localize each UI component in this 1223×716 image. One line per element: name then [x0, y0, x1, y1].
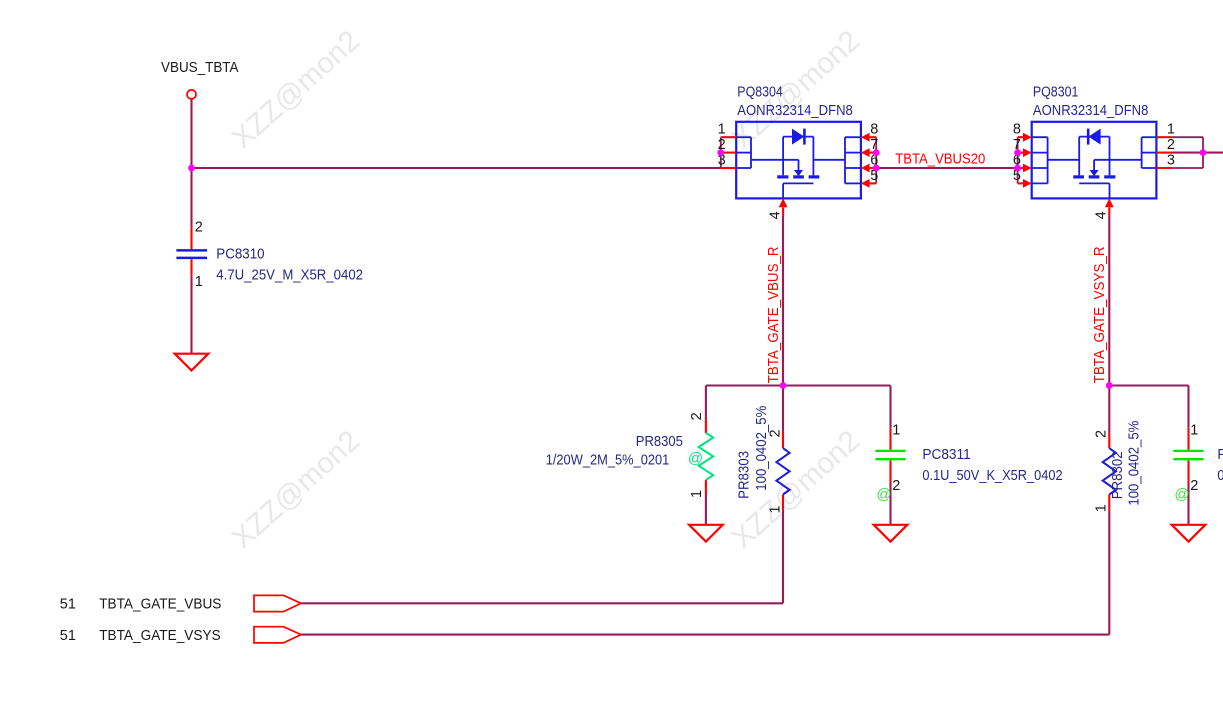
svg-text:VBUS_TBTA: VBUS_TBTA: [161, 60, 239, 76]
wire net TBTA_VBUS20 between PQ8304 and PQ8301: [876, 167, 1017, 169]
svg-text:TBTA_VBUS20: TBTA_VBUS20: [895, 151, 985, 167]
wire TBTA_GATE_VBUS port wire: [301, 602, 783, 604]
capacitor PC8310 pin stubs: [190, 228, 192, 249]
svg-text:PC8306: PC8306: [1217, 447, 1223, 463]
svg-text:51: 51: [60, 596, 76, 612]
svg-text:100_0402_5%: 100_0402_5%: [754, 406, 770, 491]
wire main VBUS_TBTA horizontal bus: [192, 167, 721, 169]
port TBTA_GATE_VBUS: [254, 595, 301, 611]
wire TBTA_GATE_VSYS port wire: [301, 634, 1109, 636]
svg-text:PQ8301: PQ8301: [1033, 85, 1079, 101]
svg-text:3: 3: [1167, 152, 1175, 168]
svg-text:0.1U_50V_K_X5R_0402: 0.1U_50V_K_X5R_0402: [1217, 468, 1223, 484]
svg-text:2: 2: [768, 429, 784, 437]
svg-text:1: 1: [1190, 422, 1198, 438]
svg-text:8: 8: [870, 122, 878, 138]
svg-text:51: 51: [60, 628, 76, 644]
svg-text:1: 1: [718, 122, 726, 138]
wire PQ8304 right pin tie vertical: [875, 137, 877, 183]
resistor PR8303 pin stubs: [782, 432, 784, 448]
svg-text:2: 2: [1093, 430, 1109, 438]
PQ8304 right pins 8,7,6,5 arrows and stubs: [861, 133, 870, 142]
PQ8304 MOSFET channel bars: [777, 175, 788, 178]
resistor PR8302 pin stubs: [1108, 433, 1110, 448]
svg-text:TBTA_GATE_VSYS: TBTA_GATE_VSYS: [99, 628, 221, 644]
svg-text:PC8311: PC8311: [922, 447, 970, 463]
PQ8304 body arrow: [798, 160, 800, 171]
wire PQ8304 left pin tie vertical: [720, 137, 722, 168]
ground for PC8311: [874, 525, 908, 542]
svg-text:4: 4: [1094, 211, 1110, 219]
svg-text:1/20W_2M_5%_0201: 1/20W_2M_5%_0201: [546, 453, 670, 469]
wire rail to PC8311: [889, 386, 891, 428]
wire TBTA_GATE_VBUS_R vertical from PQ8304 pin 4: [782, 215, 784, 385]
ground for PR8305: [689, 525, 723, 542]
node VBUS_TBTA terminal stem wire: [190, 99, 192, 228]
svg-text:TBTA_GATE_VBUS_R: TBTA_GATE_VBUS_R: [766, 246, 782, 383]
svg-text:PR8302: PR8302: [1110, 451, 1126, 499]
transistor PQ8301 AONR32314_DFN8 package body: [1032, 122, 1157, 199]
node junction dots: [188, 165, 195, 172]
svg-text:4: 4: [768, 211, 784, 219]
svg-text:1: 1: [1093, 504, 1109, 512]
svg-text:4.7U_25V_M_X5R_0402: 4.7U_25V_M_X5R_0402: [216, 268, 363, 284]
wire PC8311 to ground: [889, 484, 891, 525]
PQ8304 drain pin box (pins 5-8): [845, 136, 861, 138]
PQ8301 right pins 1,2,3 stubs: [1156, 136, 1171, 138]
wire junction to PR8302: [1108, 386, 1110, 433]
svg-text:XZZ@mon2: XZZ@mon2: [226, 424, 367, 555]
svg-text:1: 1: [768, 505, 784, 513]
svg-text:2: 2: [1190, 478, 1198, 494]
svg-text:8: 8: [1013, 122, 1021, 138]
svg-text:PR8305: PR8305: [636, 434, 683, 450]
capacitor PC8306 plates: [1173, 450, 1203, 452]
PQ8301 MOSFET channel bars: [1104, 175, 1115, 178]
resistor PR8302 body: [1103, 448, 1116, 494]
wire right gate rail horizontal: [1109, 384, 1188, 386]
PQ8301 body arrow: [1093, 160, 1095, 171]
capacitor PC8311 plates: [875, 450, 905, 452]
wire PC8310 to ground: [190, 275, 192, 353]
wire PR8302 down to port wire: [1108, 510, 1110, 635]
wire TBTA_GATE_VSYS_R vertical from PQ8301 pin 4: [1108, 215, 1110, 385]
ground for PC8306: [1172, 525, 1206, 542]
ground for PC8310: [175, 354, 209, 371]
wire rail to PC8306: [1187, 386, 1189, 428]
svg-text:2: 2: [892, 478, 900, 494]
PQ8301 body diode: [1079, 136, 1109, 138]
PQ8304 gate line to pin 4: [783, 182, 813, 184]
resistor PR8303 body: [776, 448, 789, 494]
PQ8301 pin 4 arrow: [1105, 198, 1114, 207]
PQ8304 internal source/drain connection lines: [751, 159, 799, 161]
port TBTA_GATE_VSYS: [254, 627, 301, 643]
svg-text:2: 2: [689, 412, 705, 420]
svg-text:1: 1: [689, 490, 705, 498]
svg-text:1: 1: [1167, 122, 1175, 138]
svg-text:AONR32314_DFN8: AONR32314_DFN8: [737, 103, 853, 119]
capacitor PC8310 plates: [176, 249, 207, 252]
svg-text:TBTA_GATE_VSYS_R: TBTA_GATE_VSYS_R: [1092, 246, 1108, 383]
svg-text:1: 1: [195, 274, 203, 290]
svg-text:@: @: [876, 486, 891, 503]
PQ8301 source pin box (pins 1-3): [1142, 136, 1157, 138]
PQ8304 source pin box (pins 1-3): [736, 136, 751, 138]
PQ8301 drain pin box (pins 5-8): [1032, 136, 1048, 138]
wire PC8306 to ground: [1187, 484, 1189, 525]
svg-text:2: 2: [195, 219, 203, 235]
node VBUS_TBTA terminal circle: [187, 90, 196, 99]
svg-text:TBTA_GATE_VBUS: TBTA_GATE_VBUS: [99, 596, 221, 612]
wire PR8305 to ground: [705, 494, 707, 525]
svg-text:1: 1: [892, 422, 900, 438]
wire PQ8301 left pin tie vertical: [1017, 137, 1019, 183]
PQ8301 left pins 8,7,6,5 arrows and stubs: [1023, 133, 1032, 142]
wire junction to PR8303: [782, 386, 784, 432]
resistor PR8305 pin stubs: [705, 419, 707, 433]
wire left gate rail horizontal: [706, 384, 891, 386]
wire PQ8301 right pins 1-3 to tie: [1172, 136, 1204, 138]
wire output to right edge: [1172, 152, 1223, 154]
svg-text:@: @: [1174, 486, 1189, 503]
wire PR8303 down to port wire: [782, 510, 784, 603]
capacitor PC8306 pin stubs: [1187, 428, 1189, 450]
svg-text:XZZ@mon2: XZZ@mon2: [226, 24, 367, 155]
svg-text:2: 2: [1167, 137, 1175, 153]
svg-text:AONR32314_DFN8: AONR32314_DFN8: [1033, 103, 1149, 119]
wire rail to PR8305: [705, 386, 707, 420]
svg-text:@: @: [688, 450, 703, 467]
svg-text:PR8303: PR8303: [737, 451, 753, 499]
svg-text:PQ8304: PQ8304: [737, 85, 783, 101]
svg-text:0.1U_50V_K_X5R_0402: 0.1U_50V_K_X5R_0402: [922, 468, 1062, 484]
PQ8304 pin 4 arrow: [779, 198, 788, 207]
svg-text:PC8310: PC8310: [216, 247, 264, 263]
svg-text:100_0402_5%: 100_0402_5%: [1127, 421, 1143, 506]
PQ8301 gate line to pin 4: [1079, 182, 1109, 184]
PQ8304 left pins 1,2,3 stubs: [721, 136, 736, 138]
transistor PQ8304 AONR32314_DFN8 package body: [736, 122, 861, 199]
PQ8301 internal source/drain connection lines: [1094, 159, 1142, 161]
PQ8304 body diode: [783, 136, 813, 138]
capacitor PC8311 pin stubs: [889, 428, 891, 450]
resistor PR8305 body: [699, 433, 714, 480]
